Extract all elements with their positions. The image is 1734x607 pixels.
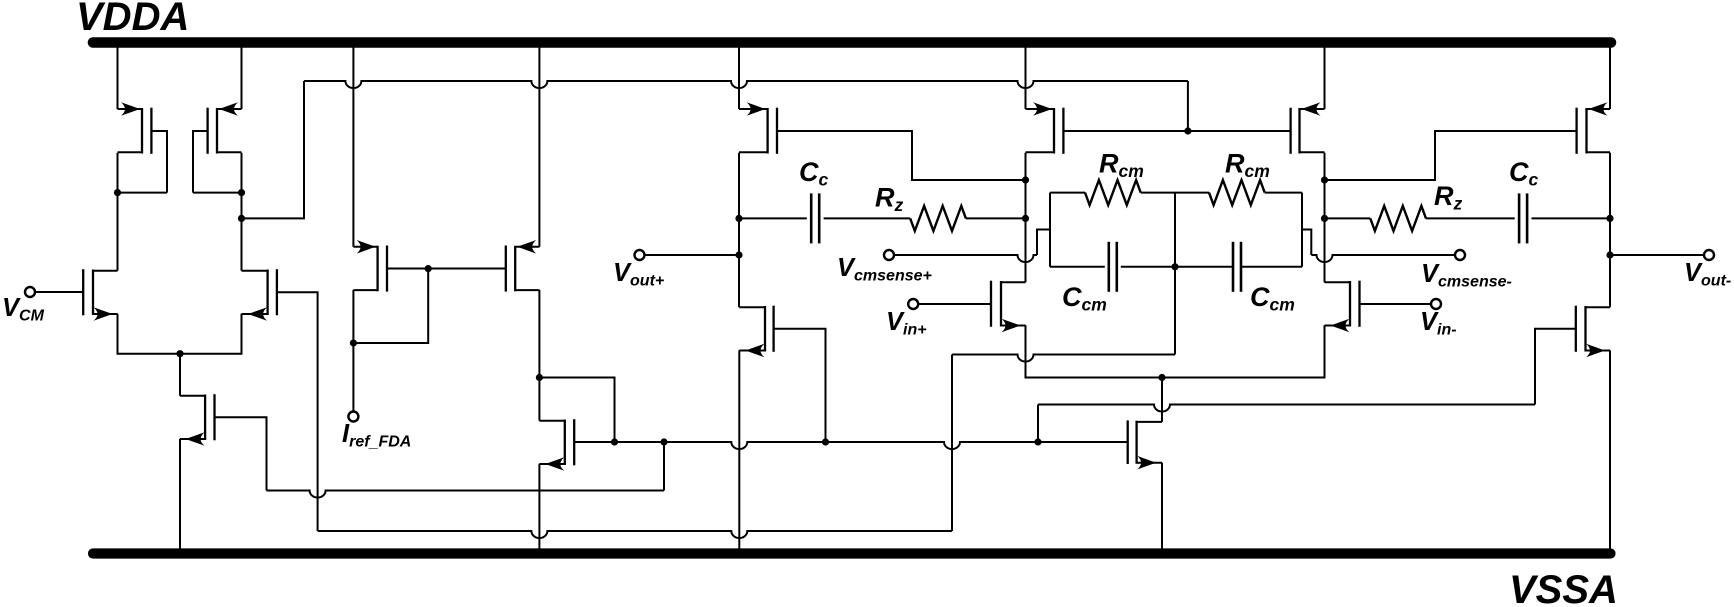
wire node B to PMOS bias line xyxy=(242,81,305,218)
wire Q5 gate to bias xyxy=(215,417,267,490)
wire Q17 source to VSSA xyxy=(1609,350,1611,549)
wire Q11/Q12 gate xyxy=(1063,130,1290,132)
wire network mid vertical xyxy=(1174,193,1176,267)
wire Q12 drain vertical xyxy=(1324,153,1326,282)
VSSA power rail xyxy=(93,548,1611,558)
wire network top a xyxy=(1050,192,1085,194)
resistor Rz (left) xyxy=(910,206,966,231)
transistor Q7 (PMOS mirror) xyxy=(506,240,540,292)
transistor Q3 (NMOS diff pair left) xyxy=(83,269,117,321)
wire Q7 drain xyxy=(538,290,540,378)
wire CM feedback bottom riser xyxy=(951,355,953,532)
wire Q10 source to VSSA xyxy=(738,350,740,549)
wire Q3 source to tail xyxy=(118,314,181,354)
capacitor Ccm (left) xyxy=(1109,242,1117,292)
wire network bottom b xyxy=(1121,266,1233,268)
transistor Q9 (PMOS output left) xyxy=(739,102,777,154)
wire Vcmsense+ to network xyxy=(894,255,1037,262)
wire Q16 gate jog xyxy=(1325,131,1577,180)
capacitor Cc (left) xyxy=(811,193,819,243)
wire Q1 gate jog xyxy=(151,131,167,193)
wire network top b xyxy=(1141,192,1209,194)
wire tail2 to Vin- source xyxy=(1162,325,1325,377)
transistor Q16 (PMOS output right) xyxy=(1577,102,1610,154)
transistor Q13 (NMOS input +) xyxy=(991,281,1026,333)
node G67 xyxy=(425,265,432,272)
node Vout- junction xyxy=(1606,251,1613,258)
wire network bottom c xyxy=(1241,266,1302,268)
terminal Vin- xyxy=(1431,299,1441,309)
wire Q9 drain vertical xyxy=(738,153,740,255)
wire tail2 to Q14 drain xyxy=(1161,378,1163,422)
wire Q9 gate jog xyxy=(777,131,1026,180)
resistor Rz (right) xyxy=(1370,206,1426,231)
transistor Q2 (PMOS, diode-connected) xyxy=(208,102,242,154)
wire Vin+ to Q13 gate xyxy=(918,303,991,305)
node E2 xyxy=(1022,215,1029,222)
wire VDDA to Q2 source xyxy=(241,47,243,109)
node Iref xyxy=(350,339,357,346)
wire node C to gate link xyxy=(539,378,614,443)
transistor Q12 (PMOS mirror mid-right) xyxy=(1291,102,1325,154)
wire Q2 gate jog xyxy=(193,131,208,193)
transistor Q5 (NMOS tail source) xyxy=(180,394,215,446)
wire gate line drop to bias xyxy=(1037,405,1039,443)
transistor Q8 (NMOS, diode-connected) xyxy=(539,419,574,471)
wire node C to Q8 drain xyxy=(538,378,540,421)
node mirror gate xyxy=(1184,127,1191,134)
transistor Q10 (NMOS output left) xyxy=(739,306,773,358)
wire network rail right xyxy=(1301,193,1303,267)
wire Q1/Q3 drain vertical xyxy=(117,153,119,271)
wire Q10 gate drop xyxy=(774,329,826,442)
node bias1 xyxy=(611,438,618,445)
wire gate line riser xyxy=(1535,329,1576,405)
svg-text:VSSA: VSSA xyxy=(1509,568,1618,607)
wire tail1 to Q5 drain xyxy=(179,354,181,396)
wire NMOS bias line (main) xyxy=(574,442,1127,449)
wire node to Q10 drain xyxy=(738,255,740,307)
wire network rail left xyxy=(1049,193,1051,267)
transistor Q15 (NMOS input -) xyxy=(1325,281,1360,333)
transistor Q17 (NMOS output right) xyxy=(1576,306,1610,358)
wire Vcmsense- to terminal xyxy=(1311,255,1455,262)
wire Vin- to Q15 gate xyxy=(1360,303,1432,305)
wire node A to gate xyxy=(118,192,168,194)
wire compensation left c xyxy=(966,217,1026,219)
wire Vcmsense- jog xyxy=(1302,230,1311,256)
node bias4 xyxy=(1034,438,1041,445)
transistor Q14 (NMOS tail source 2) xyxy=(1128,420,1162,469)
node tail1 xyxy=(176,350,183,357)
wire VDDA to Q7 source xyxy=(538,47,540,247)
transistor Q1 (PMOS, diode-connected) xyxy=(118,102,152,154)
wire VDDA to Q9 source xyxy=(738,47,740,109)
resistor Rcm (right) xyxy=(1209,180,1265,205)
wire CM feedback riser xyxy=(1174,267,1176,355)
node B tap xyxy=(238,215,245,222)
wire VDDA to Q12 source xyxy=(1324,47,1326,109)
node B xyxy=(238,189,245,196)
wire Vout+ to node xyxy=(645,254,740,256)
wire Q11 drain vertical xyxy=(1025,153,1027,282)
terminal Vout+ xyxy=(635,250,645,260)
node bias3 xyxy=(822,438,829,445)
VDDA power rail xyxy=(93,37,1611,48)
terminal Vout- xyxy=(1704,250,1714,260)
resistor Rcm (left) xyxy=(1085,180,1141,205)
capacitor Cc (right) xyxy=(1519,193,1527,243)
node A xyxy=(114,189,121,196)
wire Vcmsense+ jog xyxy=(1037,230,1050,256)
wire compensation right a xyxy=(1325,217,1371,219)
wire VDDA to Q6 source xyxy=(352,47,354,247)
wire bias line drop to mirror gates xyxy=(1187,81,1189,131)
wire compensation right b xyxy=(1426,217,1515,219)
wire Q6/Q7 gate xyxy=(387,268,506,270)
wire Q8 source to VSSA xyxy=(538,464,540,549)
node tail2 xyxy=(1158,374,1165,381)
svg-text:VDDA: VDDA xyxy=(76,0,189,39)
terminal Iref_FDA xyxy=(348,412,358,422)
node F2 xyxy=(1321,215,1328,222)
node bias2 xyxy=(660,438,667,445)
wire Q5 source to VSSA xyxy=(179,439,181,549)
wire NMOS bias line (lower) xyxy=(267,491,665,498)
wire network bottom a xyxy=(1050,266,1105,268)
transistor Q4 (NMOS diff pair right) xyxy=(242,269,277,321)
wire CM feedback bottom run xyxy=(318,531,952,538)
wire Q4 source to tail xyxy=(180,314,242,354)
node C xyxy=(536,374,543,381)
wire bias riser xyxy=(663,442,665,491)
transistor Q11 (PMOS mirror mid-left) xyxy=(1026,102,1064,154)
wire node B to gate xyxy=(193,192,242,194)
node Vout+ junction xyxy=(735,251,742,258)
terminal VCM xyxy=(25,287,35,297)
wire VDDA to Q1 source xyxy=(117,47,119,109)
capacitor Ccm (right) xyxy=(1233,242,1241,292)
wire PMOS bias line (top) xyxy=(304,81,1188,88)
wire compensation left a xyxy=(739,217,807,219)
wire Q14 source to VSSA xyxy=(1161,463,1163,549)
wire CM feedback link to Ccm node xyxy=(952,355,1175,362)
node E1 xyxy=(1022,176,1029,183)
wire output NMOS gate line xyxy=(1038,405,1535,412)
node Vcm sense mid xyxy=(1171,263,1178,270)
wire Q4 gate to CM feedback xyxy=(277,292,318,531)
transistor Q6 (PMOS, diode-connected) xyxy=(353,240,387,292)
wire Vout- to terminal xyxy=(1610,254,1704,256)
wire Q16 drain vertical xyxy=(1609,153,1611,307)
terminal Vin+ xyxy=(908,299,918,309)
wire Q6 drain xyxy=(352,290,354,343)
node D2 xyxy=(1606,215,1613,222)
wire VDDA to Q11 source xyxy=(1025,47,1027,109)
wire Q2/Q4 drain vertical xyxy=(241,153,243,271)
node D1 xyxy=(735,215,742,222)
wire Q13 source to tail2 xyxy=(1026,325,1163,377)
wire compensation left b xyxy=(824,217,911,219)
node F1 xyxy=(1321,176,1328,183)
terminal Vcmsense+ xyxy=(884,250,894,260)
wire VCM to Q3 gate xyxy=(35,291,83,293)
terminal Vcmsense- xyxy=(1455,250,1465,260)
wire Iref node to gate xyxy=(353,269,428,343)
wire compensation right c xyxy=(1532,217,1611,219)
wire network top c xyxy=(1265,192,1302,194)
wire Iref stub xyxy=(352,343,354,412)
wire VDDA to Q16 source xyxy=(1609,47,1611,109)
